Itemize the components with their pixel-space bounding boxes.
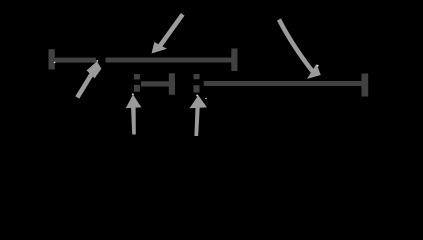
highlight specks [54, 60, 319, 99]
arrow 1 (top left, pointing down-left at interval A) [152, 14, 183, 53]
interval A right tick [231, 49, 237, 72]
interval C right tick [362, 74, 369, 97]
interval A left tick [49, 49, 55, 69]
arrow 3 (lower left, pointing up-right at interval A left end) [77, 61, 101, 97]
interval C bar [204, 81, 362, 86]
interval A bar segment 2 [106, 58, 235, 63]
interval B bar [141, 81, 169, 86]
interval B dashed left tick (open end) [134, 74, 140, 92]
interval A bar segment 1 [52, 58, 96, 63]
arrow 2 (top right, pointing down-right at interval C) [279, 20, 321, 79]
interval C dashed left tick (open end) [194, 74, 200, 93]
interval B right tick [169, 73, 175, 95]
arrow 5 (up arrow at interval C open end) [190, 95, 208, 136]
arrow 4 (up arrow at interval B open end) [126, 95, 142, 135]
